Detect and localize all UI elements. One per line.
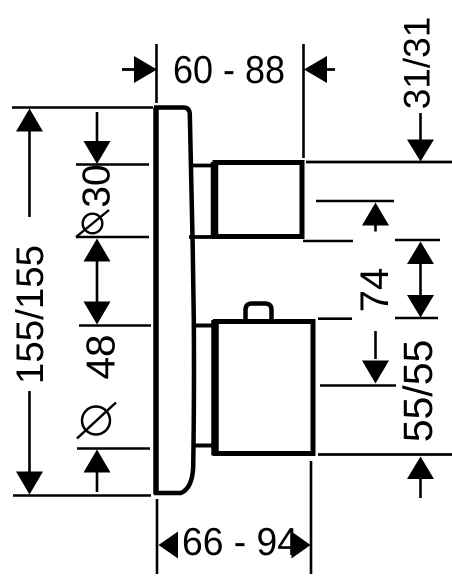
lower knob top tab: [246, 304, 272, 322]
diameter symbol of dia30 circle: [83, 214, 103, 234]
svg-text:60 - 88: 60 - 88: [173, 49, 285, 92]
dim 60-88 right extension line: [302, 44, 305, 158]
diameter symbol of dia48 circle: [82, 407, 110, 435]
upper knob stem top line: [189, 164, 216, 168]
arrow 66-94 left: [159, 532, 179, 559]
double arrow stem between dia30 and dia48: [96, 260, 99, 303]
upper knob U1 outline: [215, 163, 302, 237]
dim 60-88 left extension line: [155, 44, 158, 103]
dim 74 lower stem: [374, 331, 377, 359]
diameter symbol of dia30 slash: [76, 210, 109, 237]
svg-text:155/155: 155/155: [9, 245, 52, 384]
escutcheon plate left edge: [153, 108, 159, 495]
lower knob top reference line left part: [318, 317, 352, 320]
dim 60-88 right tail: [325, 68, 335, 71]
dim 60-88 left tail: [122, 68, 136, 71]
dim 66-94 right extension line: [310, 461, 313, 574]
arrow 60-88 right: [304, 56, 327, 83]
dim dia48 bottom tick: [77, 447, 150, 450]
arrow 31/31 up (below knob bottom line): [407, 242, 434, 265]
dim dia30 bottom tick: [76, 236, 149, 239]
arrow 55/55 down (above lower knob top line): [407, 295, 434, 318]
dim 155/155 upper stem: [28, 130, 31, 217]
knob top reference line: [306, 161, 452, 164]
upper knob left edge bar: [211, 162, 219, 239]
arrow 74 down: [362, 361, 389, 384]
lower knob top reference line right part: [395, 317, 438, 320]
lower knob stem top line: [194, 324, 217, 328]
diameter symbol of dia48 slash: [77, 403, 116, 439]
arrow dia48 up (below bottom tick): [84, 450, 111, 473]
svg-text:30: 30: [76, 164, 119, 207]
arrow 155/155 down: [16, 472, 43, 495]
escutcheon plate outline: [154, 108, 194, 494]
svg-text:55/55: 55/55: [395, 340, 441, 443]
lower knob bottom reference line: [318, 453, 452, 456]
dim 155/155 top tick: [12, 106, 153, 109]
arrow dia48 down (above top tick): [84, 302, 111, 325]
arrow 31/31 down: [407, 140, 434, 162]
upper knob stem bottom line: [189, 235, 216, 239]
arrow 55/55 up (below lower knob bottom line): [407, 457, 434, 480]
dim 55/55 lower stem: [419, 478, 422, 498]
arrow 60-88 left: [134, 56, 157, 83]
arrow dia30 up (below bottom tick): [84, 239, 111, 262]
dim 74 bottom tick (lower knob center): [320, 384, 396, 387]
lower knob left edge bar: [211, 320, 219, 456]
svg-text:66 - 94: 66 - 94: [182, 521, 298, 564]
dim dia48 lower stem: [96, 471, 99, 492]
arrow 155/155 up: [16, 109, 43, 132]
lower knob stem bottom line: [194, 444, 217, 448]
dim dia30 upper stem: [96, 112, 99, 143]
dim 155/155 bottom tick: [13, 494, 151, 497]
dim dia48 top tick: [79, 324, 151, 327]
arrow dia30 down: [84, 141, 111, 164]
double arrow stem between 31/31 and 55/55: [419, 263, 422, 296]
knob bottom reference line right part: [395, 239, 440, 242]
arrow 66-94 right: [292, 532, 311, 559]
dim 31/31 stem: [419, 113, 422, 140]
lower knob outline: [216, 322, 314, 454]
svg-text:31/31: 31/31: [396, 17, 437, 110]
knob bottom reference line left part: [303, 240, 353, 243]
dim 155/155 lower stem: [28, 391, 31, 473]
dim dia30 top tick: [76, 163, 149, 166]
dim 66-94 left extension line: [156, 499, 159, 574]
svg-text:48: 48: [77, 334, 123, 379]
arrow 74 up: [362, 203, 389, 226]
svg-text:74: 74: [353, 268, 397, 313]
dim 74 top tick (upper knob center): [316, 200, 394, 203]
dim 74 upper stem: [374, 224, 377, 232]
